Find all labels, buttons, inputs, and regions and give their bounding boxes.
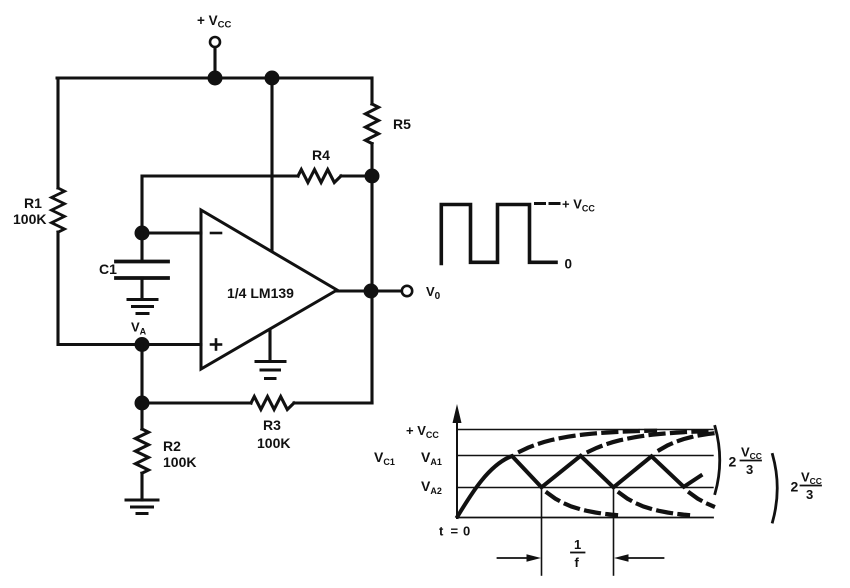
ground (C1) — [128, 298, 157, 301]
arrow right (period) — [626, 557, 664, 559]
junction (node VA) — [135, 337, 150, 352]
svg-text:+ VCC: + VCC — [406, 423, 439, 440]
svg-text:R4: R4 — [312, 147, 330, 163]
arrow left (period) — [498, 557, 530, 559]
wire (Vcc terminal to rail) — [213, 48, 216, 79]
gridline VA1 — [457, 455, 713, 457]
chart label VA1 — [421, 449, 442, 467]
svg-text:R1: R1 — [24, 195, 42, 211]
dashed discharge curve 3 — [690, 493, 713, 506]
chart y-axis — [456, 421, 458, 518]
op-amp U1 1/4 LM139 — [201, 210, 337, 369]
svg-text:R3: R3 — [263, 417, 281, 433]
wire (left bus lower, corner to VA) — [58, 232, 201, 345]
ground (op-amp) — [268, 330, 271, 361]
dashed discharge curve 2 — [620, 493, 689, 515]
svg-text:VA: VA — [131, 320, 147, 337]
wire (op-amp V+ supply) — [270, 78, 273, 251]
+Vcc terminal — [210, 37, 220, 47]
squarewave 0 label — [565, 257, 573, 272]
wire (inverting input) — [142, 231, 201, 234]
svg-text:2: 2 — [729, 454, 737, 470]
chart label +Vcc — [406, 423, 439, 440]
wire (R4 left feed) — [142, 176, 298, 233]
svg-text:2: 2 — [791, 479, 799, 495]
wire (right bus from rail to R5) — [370, 78, 373, 104]
svg-text:100K: 100K — [257, 435, 290, 451]
junction (R2/R3 node) — [135, 396, 150, 411]
label 1/f — [574, 537, 581, 570]
dashed charge curve 2 — [589, 431, 713, 452]
wire (top supply rail) — [57, 77, 372, 80]
svg-text:100K: 100K — [163, 454, 196, 470]
+Vcc label — [197, 13, 232, 31]
junction (op-amp supply tap) — [265, 71, 280, 86]
svg-text:VA2: VA2 — [421, 478, 442, 496]
svg-text:0: 0 — [565, 257, 573, 272]
Vc1 capacitor waveform — [458, 456, 701, 517]
svg-text:t: t — [439, 524, 444, 539]
resistor R5 — [366, 104, 379, 144]
squarewave output waveform — [441, 205, 556, 264]
svg-text:f: f — [575, 555, 580, 570]
wire (VA down to R2/R3 node) — [140, 345, 143, 404]
svg-text:R5: R5 — [393, 116, 411, 132]
junction (output node) — [364, 284, 379, 299]
chart label Vc1 — [374, 449, 395, 467]
gridline VA2 — [457, 487, 713, 489]
output terminal V0 — [402, 286, 412, 296]
wire (op-amp output) — [337, 289, 402, 292]
svg-text:=: = — [451, 524, 459, 539]
wire (left bus upper) — [56, 78, 59, 188]
label 2Vcc/3 upper — [729, 445, 762, 478]
period marker line 1 — [541, 488, 543, 576]
wire (right bus down to R3 corner) — [370, 176, 373, 403]
wire (R5 to node) — [370, 144, 373, 176]
brace 2 (2Vcc/3 lower) — [773, 455, 778, 523]
junction (Vcc tap) — [208, 71, 223, 86]
junction (C1 / inverting input node) — [135, 226, 150, 241]
svg-text:V0: V0 — [426, 284, 441, 302]
svg-text:1: 1 — [574, 537, 581, 552]
capacitor C1 — [140, 233, 143, 261]
resistor R4 — [298, 170, 341, 183]
node VA label — [131, 320, 147, 337]
svg-text:VCC: VCC — [801, 470, 822, 487]
svg-text:3: 3 — [746, 462, 753, 477]
dashed discharge curve 1 — [547, 493, 616, 515]
svg-text:C1: C1 — [99, 261, 117, 277]
dashed charge curve 1 — [520, 431, 655, 452]
resistor R2 — [140, 403, 143, 429]
svg-text:+ VCC: + VCC — [562, 197, 595, 214]
chart label VA2 — [421, 478, 442, 496]
svg-text:0: 0 — [463, 524, 470, 539]
svg-text:100K: 100K — [13, 211, 46, 227]
dashed charge curve 3 — [660, 433, 714, 450]
gridline +Vcc — [457, 429, 713, 431]
brace 1 (2Vcc/3 upper) — [715, 427, 720, 494]
svg-text:1/4 LM139: 1/4 LM139 — [227, 285, 294, 301]
dashed +Vcc reference line — [536, 202, 561, 205]
chart baseline — [457, 517, 713, 519]
label 2Vcc/3 lower — [791, 470, 822, 503]
svg-text:R2: R2 — [163, 438, 181, 454]
resistor R1 — [52, 188, 65, 232]
svg-text:3: 3 — [806, 487, 813, 502]
chart label t = 0 — [439, 524, 470, 539]
svg-text:VC1: VC1 — [374, 449, 395, 467]
svg-text:VA1: VA1 — [421, 449, 442, 467]
junction (R4/R5 node) — [365, 169, 380, 184]
svg-text:+ VCC: + VCC — [197, 13, 232, 31]
resistor R3 — [142, 401, 251, 404]
ground (R2) — [126, 499, 158, 502]
svg-text:VCC: VCC — [741, 445, 762, 462]
wire (R4 to node) — [341, 174, 372, 177]
squarewave +Vcc label — [562, 197, 595, 214]
period marker line 2 — [613, 488, 615, 576]
